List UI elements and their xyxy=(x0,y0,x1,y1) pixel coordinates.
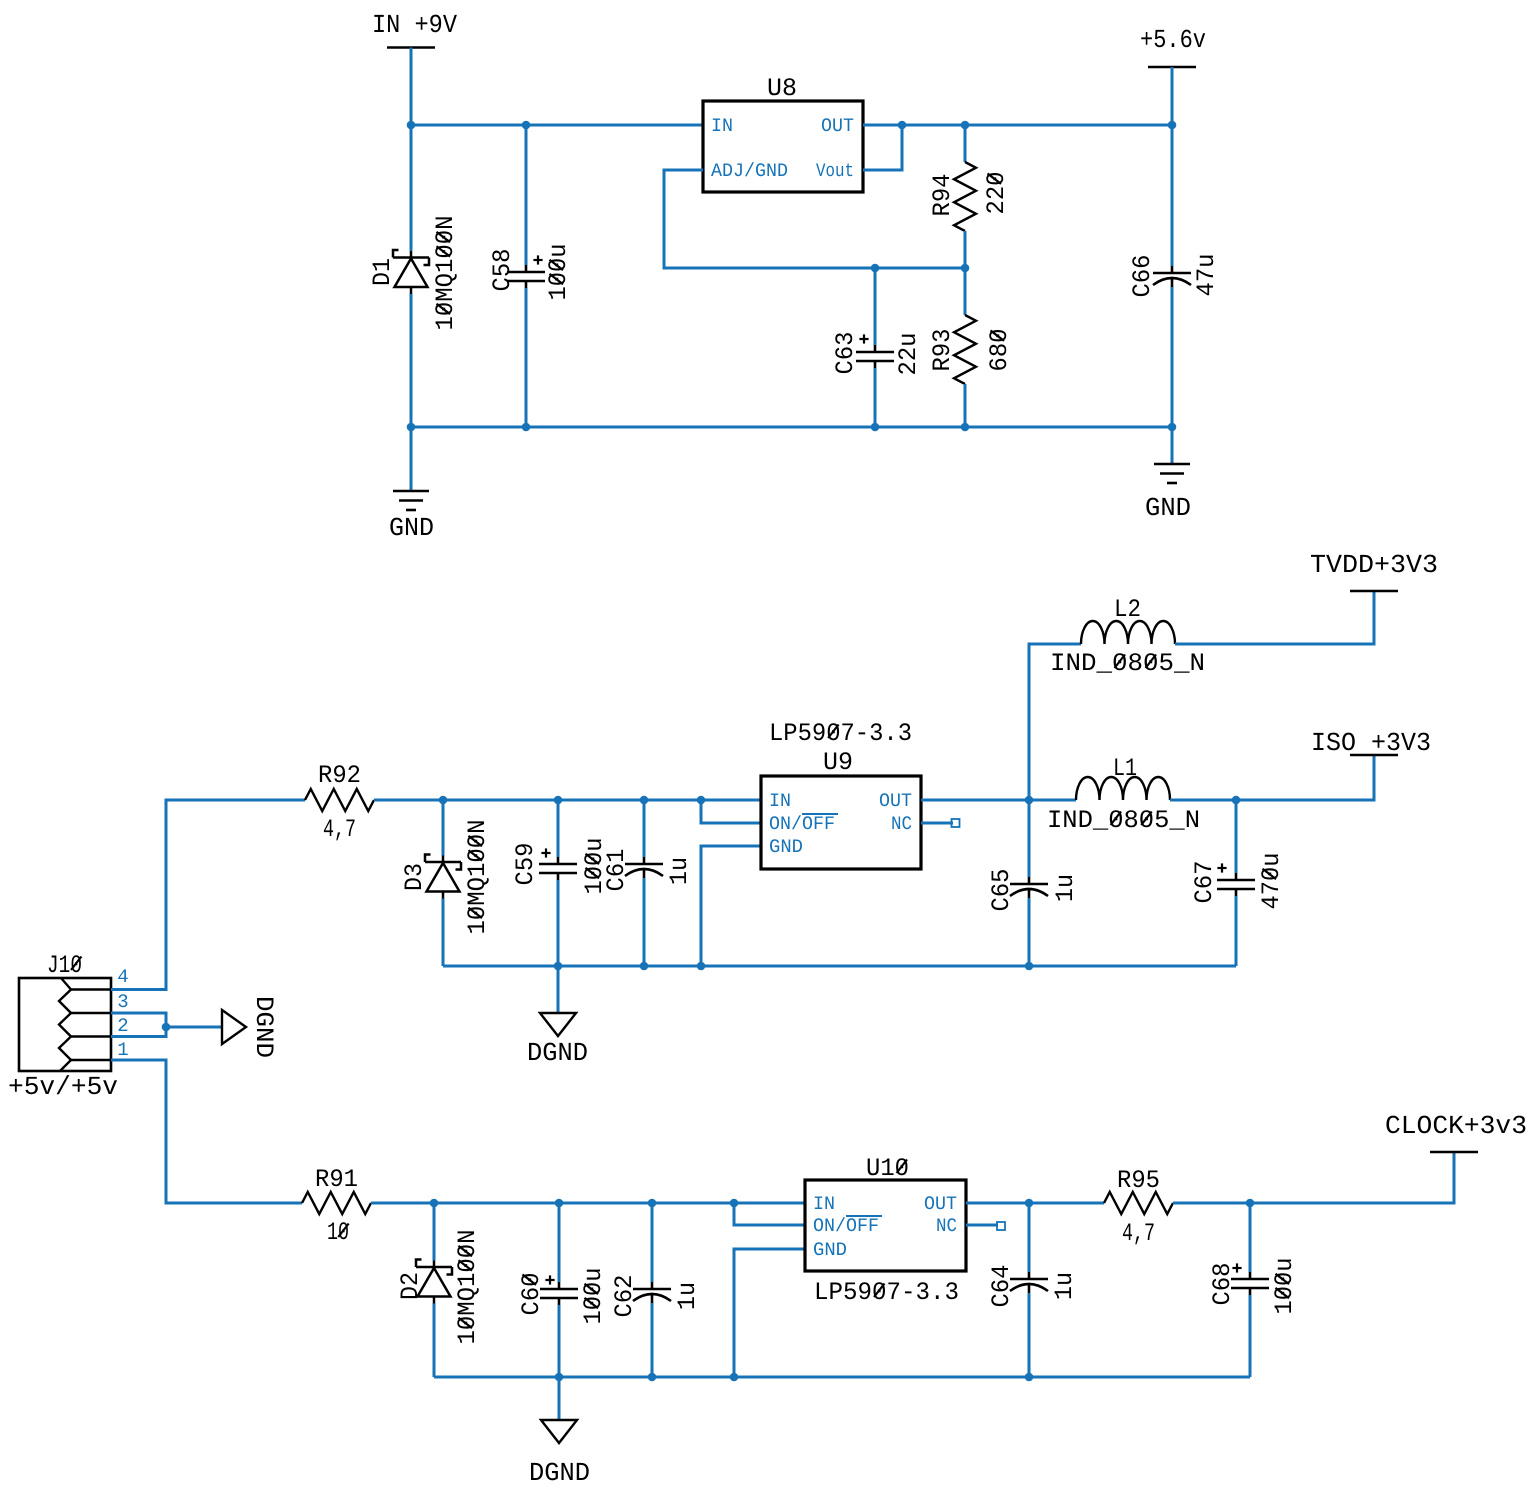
svg-text:NC: NC xyxy=(936,1215,957,1237)
ground DGND arrow at J10 xyxy=(222,1010,246,1044)
capacitor C61 1u xyxy=(625,857,663,878)
svg-text:1: 1 xyxy=(117,1039,128,1061)
capacitor C68 100u xyxy=(1231,1272,1269,1295)
wire up to L2 branch xyxy=(1029,644,1081,800)
capacitor C65 1u xyxy=(1010,877,1048,898)
wire C63 top xyxy=(874,268,877,345)
svg-text:IN: IN xyxy=(769,790,791,812)
svg-text:IND_0805_N: IND_0805_N xyxy=(1050,649,1205,678)
wire C62 top xyxy=(651,1203,654,1282)
wire C67 top xyxy=(1235,800,1238,873)
svg-text:ON/OFF: ON/OFF xyxy=(769,813,835,835)
node Vout junction xyxy=(898,121,907,130)
resistor R95 4,7 xyxy=(1104,1192,1173,1214)
node +5.6v rail junction xyxy=(1168,121,1177,130)
wire R94 top stub xyxy=(964,125,967,162)
diode D3 10MQ100N schottky xyxy=(425,855,461,899)
wire C58 bottom xyxy=(525,288,528,427)
svg-text:U10: U10 xyxy=(866,1154,909,1183)
node middle rail junctions xyxy=(554,962,563,971)
node C62 top junction xyxy=(648,1199,657,1208)
wire D1 bottom xyxy=(410,294,413,427)
svg-text:C62: C62 xyxy=(610,1275,639,1318)
ground GND left xyxy=(393,491,429,510)
wire C68 top xyxy=(1249,1203,1252,1272)
wire U10 OUT xyxy=(966,1202,1029,1205)
svg-text:D3: D3 xyxy=(400,863,429,891)
svg-text:100u: 100u xyxy=(544,244,573,301)
wire U10 NC stub xyxy=(966,1224,998,1227)
wire U8 Vout to OUT rail xyxy=(863,125,902,170)
svg-text:GND: GND xyxy=(769,836,803,858)
inductor L1 IND_0805_N xyxy=(1076,777,1170,800)
svg-text:C66: C66 xyxy=(1128,255,1157,298)
svg-text:IN +9V: IN +9V xyxy=(372,10,457,40)
wire J10 pin4 to R92 rail xyxy=(111,800,305,990)
wire C64 top xyxy=(1028,1203,1031,1272)
svg-text:4,7: 4,7 xyxy=(1122,1219,1155,1248)
svg-text:GND: GND xyxy=(389,513,434,543)
svg-text:DGND: DGND xyxy=(527,1038,588,1068)
wire bottom ground rail xyxy=(434,1376,1250,1379)
svg-text:220: 220 xyxy=(982,172,1011,215)
node bottom rail junctions xyxy=(555,1373,564,1382)
wire C61 bottom xyxy=(643,878,646,966)
svg-text:CLOCK+3v3: CLOCK+3v3 xyxy=(1385,1111,1527,1141)
ground GND right xyxy=(1154,464,1190,483)
wire IN+9V down to node xyxy=(410,48,413,126)
wire to DGND arrow xyxy=(166,1026,222,1029)
wire U10 GND drop xyxy=(734,1249,805,1377)
wire D3 top xyxy=(442,800,445,856)
svg-text:C60: C60 xyxy=(517,1273,546,1316)
svg-text:1u: 1u xyxy=(673,1282,702,1310)
svg-text:C67: C67 xyxy=(1190,861,1219,904)
svg-text:GND: GND xyxy=(1145,493,1191,523)
svg-text:U9: U9 xyxy=(823,748,853,777)
svg-text:GND: GND xyxy=(813,1239,847,1261)
svg-text:4: 4 xyxy=(117,966,128,988)
svg-text:IN: IN xyxy=(813,1193,835,1215)
svg-text:IN: IN xyxy=(711,115,733,137)
wire U9 GND drop xyxy=(701,846,761,966)
capacitor C64 1u xyxy=(1010,1272,1048,1293)
wire L1 to ISO flag xyxy=(1170,755,1374,800)
svg-text:3: 3 xyxy=(117,991,128,1013)
wire D1 top xyxy=(410,125,413,251)
svg-text:+5v/+5v: +5v/+5v xyxy=(8,1072,118,1102)
wire C61 top xyxy=(643,800,646,857)
wire L2 to TVDD flag xyxy=(1175,591,1374,644)
wire L1 left stub xyxy=(1029,799,1076,802)
node C63 top junction xyxy=(871,264,880,273)
svg-text:NC: NC xyxy=(891,813,912,835)
wire R91 to U10 IN xyxy=(371,1202,805,1205)
diode D1 10MQ100N schottky xyxy=(393,250,429,294)
power flag ISO +3V3 xyxy=(1311,728,1431,758)
wire middle ground rail xyxy=(443,965,1236,968)
capacitor C62 1u xyxy=(633,1282,671,1303)
svg-text:U8: U8 xyxy=(767,74,797,103)
wire U8 OUT rail xyxy=(863,124,1172,127)
resistor R91 10 xyxy=(302,1192,371,1214)
resistor R94 220 xyxy=(954,162,976,231)
svg-text:L1: L1 xyxy=(1113,754,1137,783)
wire R92 to U9 IN xyxy=(374,799,761,802)
wire R95 to C68 node xyxy=(1173,1202,1250,1205)
svg-text:R95: R95 xyxy=(1117,1166,1160,1195)
inductor L2 IND_0805_N xyxy=(1081,621,1175,644)
node C64 junction xyxy=(1025,1199,1034,1208)
wire U10 ON/OFF tie xyxy=(734,1203,805,1225)
svg-text:D2: D2 xyxy=(396,1272,425,1300)
svg-text:100u: 100u xyxy=(579,1268,608,1325)
svg-text:DGND: DGND xyxy=(529,1458,590,1488)
svg-text:C68: C68 xyxy=(1208,1263,1237,1306)
svg-text:10MQ100N: 10MQ100N xyxy=(453,1230,482,1345)
svg-text:LP5907-3.3: LP5907-3.3 xyxy=(769,719,912,748)
svg-text:OUT: OUT xyxy=(879,790,912,812)
pin numbers J10 xyxy=(117,966,128,988)
svg-text:DGND: DGND xyxy=(249,996,278,1058)
svg-text:LP5907-3.3: LP5907-3.3 xyxy=(814,1278,959,1307)
svg-text:R93: R93 xyxy=(928,329,957,372)
no-connect U10 NC xyxy=(997,1222,1005,1230)
wire C60 top xyxy=(558,1203,561,1282)
node C61 top junction xyxy=(640,796,649,805)
wire C63 bottom xyxy=(874,368,877,427)
svg-text:1u: 1u xyxy=(1051,874,1080,902)
power flag IN +9V xyxy=(372,10,457,40)
wire D2 bottom xyxy=(433,1304,436,1378)
svg-text:1u: 1u xyxy=(1050,1272,1079,1300)
svg-text:TVDD+3V3: TVDD+3V3 xyxy=(1310,550,1438,580)
svg-text:C63: C63 xyxy=(831,332,860,375)
wire top section ground rail xyxy=(411,426,1172,429)
ground DGND middle xyxy=(540,1013,576,1036)
svg-text:C58: C58 xyxy=(488,249,517,292)
wire R93 top stub xyxy=(964,268,967,315)
power flag TVDD+3V3 xyxy=(1310,550,1438,580)
svg-text:C61: C61 xyxy=(602,849,631,892)
wire C67 bottom xyxy=(1235,896,1238,966)
capacitor C63 22u xyxy=(856,345,894,368)
connector J10 xyxy=(19,978,111,1071)
node ON/OFF jog junction xyxy=(697,796,706,805)
node C68 junction xyxy=(1246,1199,1255,1208)
svg-text:10: 10 xyxy=(327,1218,349,1247)
wire C66 top xyxy=(1171,125,1174,266)
svg-text:IND_0805_N: IND_0805_N xyxy=(1047,806,1200,835)
regulator U8 xyxy=(703,101,863,192)
node U10 jog junction xyxy=(730,1199,739,1208)
svg-text:ADJ/GND: ADJ/GND xyxy=(711,160,788,182)
regulator U10 LP5907-3.3 xyxy=(805,1180,966,1271)
wire U9 OUT xyxy=(921,799,1029,802)
wire CLOCK net to flag xyxy=(1250,1152,1454,1203)
svg-text:R92: R92 xyxy=(318,761,361,790)
wire R93 bottom stub xyxy=(964,384,967,427)
svg-text:4,7: 4,7 xyxy=(323,815,356,844)
svg-text:C59: C59 xyxy=(511,843,540,886)
wire C60 bottom xyxy=(558,1305,561,1377)
power flag +5.6v xyxy=(1140,25,1206,55)
capacitor C59 100u xyxy=(539,857,577,880)
wire C59 bottom xyxy=(557,880,560,966)
svg-text:470u: 470u xyxy=(1257,853,1286,910)
wire to right GND xyxy=(1171,427,1174,464)
svg-text:+5.6v: +5.6v xyxy=(1140,25,1206,55)
svg-text:J10: J10 xyxy=(47,951,82,980)
wire C62 bottom xyxy=(651,1303,654,1377)
node C59 top junction xyxy=(554,796,563,805)
power flag CLOCK+3v3 xyxy=(1385,1111,1527,1141)
capacitor C60 100u xyxy=(540,1282,578,1305)
node DGND junction xyxy=(162,1023,171,1032)
svg-text:47u: 47u xyxy=(1192,254,1221,297)
wire C59 top xyxy=(557,800,560,857)
svg-text:1u: 1u xyxy=(665,857,694,885)
wire C58 top xyxy=(525,125,528,265)
svg-text:OUT: OUT xyxy=(924,1193,957,1215)
node R94/R93 junction xyxy=(961,264,970,273)
node C60 top junction xyxy=(555,1199,564,1208)
node OUT/L2/L1/C65 junction xyxy=(1025,796,1034,805)
wire J10 pin2 to DGND node xyxy=(111,1027,166,1037)
svg-text:Vout: Vout xyxy=(816,160,854,182)
svg-text:R94: R94 xyxy=(928,174,957,217)
svg-text:C64: C64 xyxy=(987,1265,1016,1308)
wire DGND stub middle xyxy=(557,966,560,1013)
node C67 junction xyxy=(1232,796,1241,805)
wire J10 pin1 down to R91 xyxy=(111,1060,302,1203)
wire to left GND xyxy=(410,427,413,491)
wire U8 ADJ/GND feedback xyxy=(664,170,965,268)
ground DGND bottom xyxy=(541,1420,577,1443)
capacitor C67 470u xyxy=(1217,873,1255,896)
svg-text:10MQ100N: 10MQ100N xyxy=(431,216,460,331)
wire C65 bottom xyxy=(1028,898,1031,966)
wire C66 bottom xyxy=(1171,287,1174,427)
wire C64 bottom xyxy=(1028,1293,1031,1377)
wire D2 top xyxy=(433,1203,436,1261)
wire to R95 xyxy=(1029,1202,1104,1205)
capacitor C66 47u xyxy=(1153,266,1191,287)
wire J10 pin3 to DGND node xyxy=(111,1013,166,1027)
svg-text:L2: L2 xyxy=(1114,595,1141,624)
svg-text:100u: 100u xyxy=(1270,1258,1299,1315)
regulator U9 LP5907-3.3 xyxy=(761,776,921,869)
svg-text:ISO +3V3: ISO +3V3 xyxy=(1311,728,1431,758)
wire C65 top xyxy=(1028,800,1031,877)
node D2 junction xyxy=(430,1199,439,1208)
wire U9 ON/OFF tie xyxy=(701,800,761,823)
svg-text:R91: R91 xyxy=(315,1165,358,1194)
diode D2 10MQ100N schottky xyxy=(416,1260,452,1304)
svg-text:ON/OFF: ON/OFF xyxy=(813,1215,879,1237)
wire C68 bottom xyxy=(1249,1295,1252,1377)
svg-text:D1: D1 xyxy=(368,258,397,286)
wire DGND stub bottom xyxy=(558,1377,561,1420)
node IN rail junction at D1 xyxy=(407,121,416,130)
wire D3 bottom xyxy=(442,899,445,967)
svg-text:2: 2 xyxy=(117,1015,128,1037)
node R94 top junction xyxy=(961,121,970,130)
wire IN rail to U8 IN pin xyxy=(411,124,703,127)
node ground rail junctions xyxy=(407,423,416,432)
no-connect U9 NC xyxy=(952,819,960,827)
resistor R92 4,7 xyxy=(305,789,374,811)
resistor R93 680 xyxy=(954,315,976,384)
svg-text:680: 680 xyxy=(985,329,1014,372)
svg-text:10MQ100N: 10MQ100N xyxy=(463,820,492,935)
svg-text:22u: 22u xyxy=(894,333,923,376)
svg-text:C65: C65 xyxy=(987,869,1016,912)
svg-text:OUT: OUT xyxy=(821,115,854,137)
capacitor C58 100u xyxy=(507,265,545,288)
wire +5.6v down xyxy=(1171,67,1174,125)
node D3 junction xyxy=(439,796,448,805)
wire U9 NC stub xyxy=(921,822,953,825)
wire R94 bottom stub xyxy=(964,231,967,268)
node C58 top junction xyxy=(522,121,531,130)
